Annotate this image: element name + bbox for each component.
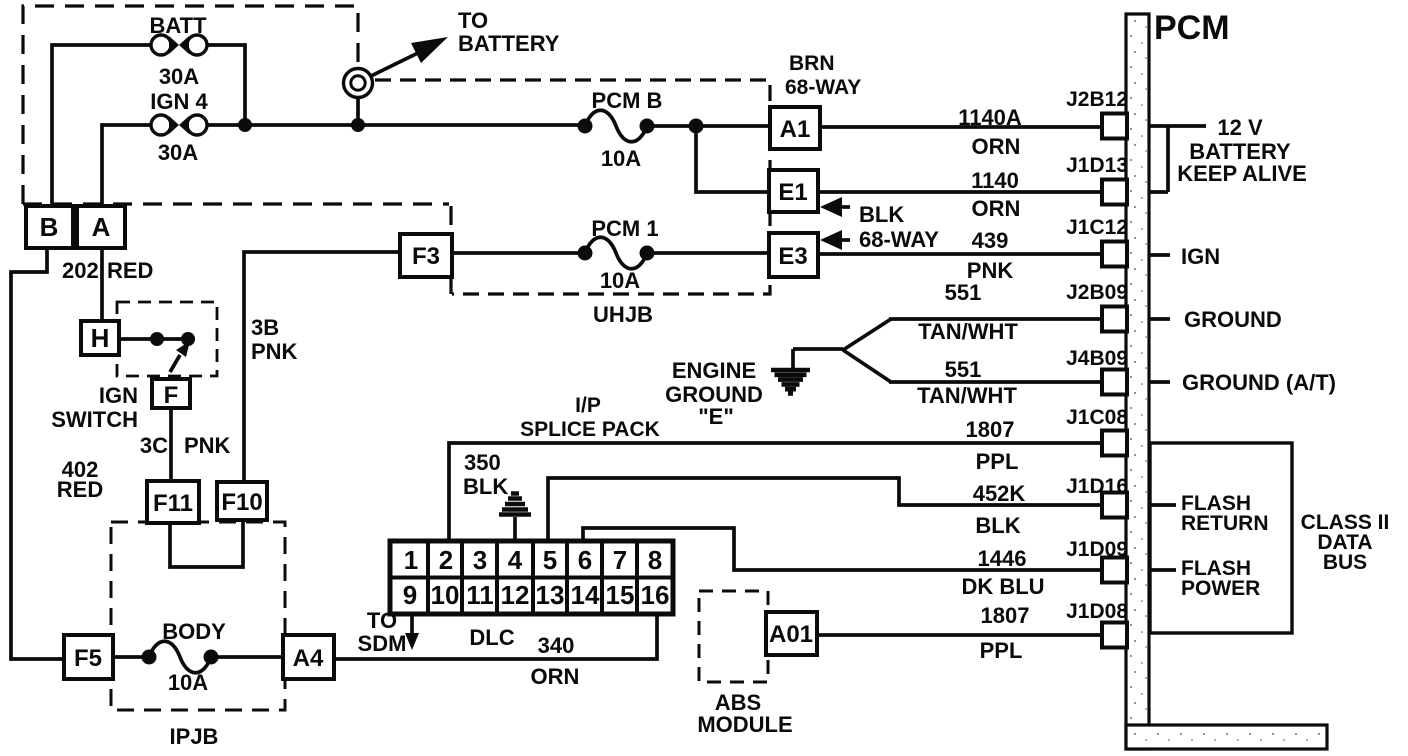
wire DLC pin 2 to J1C08 (1807 PPL) [449, 443, 1102, 542]
svg-text:SWITCH: SWITCH [51, 407, 138, 432]
svg-text:H: H [91, 323, 110, 353]
wire H to switch contacts [119, 337, 188, 341]
switch blade arrow [170, 341, 190, 372]
wire A1 to J2B12 (1140A ORN) [820, 125, 1102, 129]
svg-text:F: F [164, 382, 179, 409]
svg-text:2: 2 [439, 545, 453, 575]
svg-text:10: 10 [431, 580, 460, 610]
wire 551 to J2B09 [889, 317, 1102, 321]
FLASH POWER tick [1149, 568, 1176, 572]
wire F to F11 [169, 408, 173, 481]
svg-text:ORN: ORN [972, 134, 1021, 159]
12V keep-alive bracket [1149, 126, 1206, 192]
svg-text:5: 5 [543, 545, 557, 575]
svg-text:551: 551 [945, 280, 982, 305]
svg-text:551: 551 [945, 357, 982, 382]
svg-text:J2B12: J2B12 [1066, 88, 1128, 111]
PCM bar [1126, 14, 1327, 749]
engine ground wire and fork [793, 319, 891, 382]
svg-text:J2B09: J2B09 [1066, 281, 1128, 304]
svg-text:DK BLU: DK BLU [961, 574, 1044, 599]
svg-text:A01: A01 [769, 621, 813, 648]
pin J1C12 [1066, 216, 1128, 267]
svg-text:10A: 10A [601, 146, 641, 171]
pin J4B09 [1066, 347, 1128, 395]
svg-text:1807: 1807 [981, 603, 1030, 628]
svg-text:350: 350 [464, 450, 501, 475]
wire B down left rail to F5 [11, 248, 64, 659]
svg-text:F5: F5 [74, 645, 102, 672]
svg-text:A1: A1 [780, 116, 811, 143]
svg-text:TAN/WHT: TAN/WHT [917, 383, 1017, 408]
connector A01 [766, 612, 817, 655]
GROUND A/T tick [1149, 380, 1170, 384]
svg-text:30A: 30A [158, 140, 198, 165]
svg-text:B: B [40, 212, 59, 242]
svg-text:POWER: POWER [1181, 577, 1260, 600]
DLC pin 4 ground (350 BLK) [499, 494, 531, 543]
svg-text:"E": "E" [698, 404, 734, 429]
wire PCM 1 fuse to E3 [647, 251, 769, 255]
svg-text:J1D16: J1D16 [1066, 475, 1128, 498]
svg-text:1140: 1140 [971, 168, 1019, 193]
connector E3 [769, 233, 818, 277]
svg-text:RED: RED [107, 258, 153, 283]
svg-text:GROUND: GROUND [1184, 307, 1282, 332]
svg-text:452K: 452K [973, 481, 1026, 506]
svg-text:F11: F11 [153, 490, 193, 517]
svg-text:1807: 1807 [966, 417, 1015, 442]
svg-text:12 V: 12 V [1217, 115, 1263, 140]
svg-text:PPL: PPL [980, 638, 1023, 663]
svg-text:F10: F10 [221, 489, 262, 516]
wire DLC pin 6 to J1D09 (1446 DK BLU) [583, 528, 1102, 570]
svg-text:DLC: DLC [469, 625, 514, 650]
svg-text:IGN: IGN [1181, 244, 1220, 269]
wire DLC pin 5 to J1D16 (452K BLK) [548, 478, 1102, 542]
svg-text:BATT: BATT [149, 13, 207, 38]
pin J1D13 [1066, 154, 1128, 205]
svg-text:4: 4 [508, 545, 523, 575]
connector F10 [217, 482, 267, 520]
svg-text:J1C08: J1C08 [1066, 406, 1128, 429]
wire fuse to A4 [214, 655, 283, 659]
svg-text:TO: TO [458, 8, 488, 33]
ABS module dashed box [699, 591, 768, 682]
connector E1 [769, 170, 818, 212]
pin J2B12 [1066, 88, 1128, 139]
svg-text:68-WAY: 68-WAY [785, 76, 861, 99]
connector A [77, 206, 125, 248]
svg-text:ORN: ORN [531, 664, 580, 689]
FLASH RETURN tick [1149, 503, 1176, 507]
IPJB dashed box [111, 522, 285, 710]
svg-text:J1D13: J1D13 [1066, 154, 1128, 177]
svg-text:PPL: PPL [976, 449, 1019, 474]
svg-text:8: 8 [648, 545, 662, 575]
TO SDM arrow [405, 613, 419, 650]
svg-text:PCM 1: PCM 1 [591, 216, 658, 241]
svg-text:J4B09: J4B09 [1066, 347, 1128, 370]
svg-text:1140A: 1140A [958, 105, 1022, 130]
connector B [26, 206, 73, 248]
fuse block dashed outline top-left [23, 6, 451, 232]
DLC connector [390, 541, 673, 614]
connector A1 [770, 107, 820, 149]
pin J1C08 [1066, 406, 1128, 456]
junction [238, 118, 252, 132]
svg-text:10A: 10A [168, 670, 208, 695]
svg-text:ORN: ORN [972, 196, 1021, 221]
connector F5 [64, 635, 113, 679]
svg-text:14: 14 [571, 580, 600, 610]
wire F11 F10 jumper [170, 521, 243, 567]
DLC pin numbers 9-16 [403, 580, 670, 610]
svg-text:E1: E1 [778, 179, 807, 206]
ignition switch dashed box [117, 302, 217, 376]
UHJB dashed outline [375, 80, 770, 294]
pin J1D08 [1066, 600, 1128, 648]
svg-text:PNK: PNK [967, 258, 1014, 283]
fuse PCM B 10A [578, 110, 655, 142]
junction [689, 119, 704, 134]
switch contact [181, 332, 195, 346]
arrow at E1 [820, 197, 850, 217]
switch contact [150, 332, 164, 346]
svg-text:9: 9 [403, 580, 417, 610]
arrow at E3 [820, 230, 850, 250]
IGN tick [1149, 253, 1170, 257]
wire F5 to fuse [113, 655, 145, 659]
wire A4 to DLC pin 16 [334, 613, 657, 659]
DLC pin numbers 1-8 [404, 545, 662, 575]
svg-text:439: 439 [972, 228, 1009, 253]
pin J1D09 [1066, 538, 1128, 583]
svg-text:340: 340 [538, 633, 575, 658]
pin J1D16 [1066, 475, 1128, 518]
wire battery tap symbol stem [356, 98, 360, 120]
svg-text:RED: RED [57, 477, 103, 502]
engine ground symbol [771, 349, 810, 394]
svg-text:IGN 4: IGN 4 [150, 89, 208, 114]
svg-text:A4: A4 [293, 645, 324, 672]
fuse BODY 10A [142, 641, 219, 673]
svg-text:IPJB: IPJB [170, 724, 219, 749]
wire A to IGN 4 fuse [102, 125, 151, 206]
wire BATT fuse to junction [207, 45, 245, 125]
svg-text:202: 202 [62, 258, 99, 283]
svg-text:6: 6 [578, 545, 592, 575]
svg-text:BLK: BLK [859, 202, 904, 227]
connector F11 [147, 481, 199, 523]
wire F10 to F3 [244, 252, 400, 482]
svg-text:SPLICE PACK: SPLICE PACK [520, 418, 660, 441]
svg-text:I/P: I/P [575, 394, 601, 417]
svg-text:16: 16 [641, 580, 670, 610]
svg-text:BLK: BLK [463, 474, 508, 499]
wire E3 to J1C12 (439 PNK) [818, 252, 1102, 256]
svg-text:BUS: BUS [1323, 551, 1367, 574]
svg-text:GROUND (A/T): GROUND (A/T) [1182, 370, 1336, 395]
svg-text:1446: 1446 [978, 546, 1027, 571]
svg-text:1: 1 [404, 545, 418, 575]
svg-text:SDM: SDM [358, 631, 407, 656]
connector F3 [400, 234, 452, 277]
wire PCM B fuse to A1 [647, 124, 770, 128]
wire junction down to E1 [696, 126, 769, 192]
wire E1 to J1D13 (1140 ORN) [818, 190, 1102, 194]
svg-text:IGN: IGN [99, 383, 138, 408]
svg-text:PNK: PNK [251, 339, 298, 364]
svg-text:3B: 3B [251, 315, 279, 340]
svg-text:10A: 10A [600, 268, 640, 293]
svg-text:E3: E3 [778, 243, 807, 270]
svg-text:KEEP ALIVE: KEEP ALIVE [1177, 161, 1307, 186]
connector A4 [283, 635, 334, 679]
svg-text:TAN/WHT: TAN/WHT [918, 319, 1018, 344]
GROUND tick [1149, 317, 1170, 321]
svg-text:7: 7 [613, 545, 627, 575]
svg-text:J1D09: J1D09 [1066, 538, 1128, 561]
svg-text:BODY: BODY [162, 619, 226, 644]
connector H [81, 321, 119, 355]
connector F [152, 379, 190, 409]
wire B to BATT fuse [52, 45, 151, 206]
svg-text:11: 11 [466, 580, 494, 610]
svg-text:13: 13 [536, 580, 565, 610]
fuse BATT 30A [151, 35, 207, 55]
CLASS II data bus box [1150, 443, 1292, 633]
svg-text:J1C12: J1C12 [1066, 216, 1128, 239]
arrow to battery [371, 37, 448, 76]
svg-text:PCM B: PCM B [592, 88, 663, 113]
pin J2B09 [1066, 281, 1128, 332]
wire 551 to J4B09 [889, 380, 1102, 384]
svg-text:3C: 3C [140, 433, 168, 458]
svg-text:12: 12 [501, 580, 530, 610]
svg-text:F3: F3 [412, 243, 440, 270]
svg-text:68-WAY: 68-WAY [859, 227, 939, 252]
wire A down to H [100, 248, 104, 321]
svg-text:UHJB: UHJB [593, 302, 653, 327]
svg-text:PNK: PNK [184, 433, 231, 458]
battery tap ring symbol [344, 69, 373, 98]
wire A01 to J1D08 (1807 PPL) [817, 633, 1102, 637]
svg-text:J1D08: J1D08 [1066, 600, 1128, 623]
junction [351, 118, 365, 132]
svg-text:15: 15 [606, 580, 635, 610]
svg-text:MODULE: MODULE [697, 712, 792, 737]
svg-text:A: A [92, 212, 111, 242]
wire IGN 4 fuse to PCM B fuse [207, 123, 580, 127]
fuse IGN 4 30A [151, 115, 207, 135]
svg-text:BRN: BRN [789, 52, 835, 75]
svg-text:RETURN: RETURN [1181, 512, 1269, 535]
svg-text:30A: 30A [159, 64, 199, 89]
svg-text:3: 3 [473, 545, 487, 575]
fuse PCM 1 10A [578, 237, 655, 269]
svg-text:BATTERY: BATTERY [458, 31, 560, 56]
svg-text:ENGINE: ENGINE [672, 358, 756, 383]
wire F3 to PCM 1 fuse [452, 251, 580, 255]
svg-text:BLK: BLK [975, 513, 1020, 538]
svg-text:PCM: PCM [1154, 9, 1230, 47]
